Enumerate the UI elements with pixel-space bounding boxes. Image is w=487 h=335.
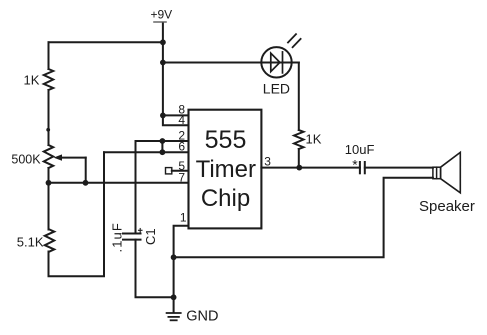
svg-text:3: 3	[264, 155, 271, 169]
wire left vertical to R1	[48, 42, 50, 69]
capacitor C1 .1uF	[123, 233, 141, 235]
svg-text:Speaker: Speaker	[419, 198, 475, 215]
junction supply top	[160, 39, 166, 45]
svg-text:4: 4	[178, 113, 185, 127]
junction pin 6	[160, 149, 166, 155]
wire LED feed	[163, 62, 299, 64]
pin 5 terminal	[166, 168, 172, 174]
wire supply vertical	[162, 24, 164, 116]
svg-text:*: *	[352, 157, 358, 173]
wire pin4 stub	[163, 115, 189, 125]
power bar	[154, 21, 166, 23]
wire C1 bottom to ground node	[136, 240, 174, 298]
wire pin2-pin6 tie	[161, 141, 163, 152]
potentiometer VR1 500K	[44, 145, 53, 168]
svg-text:LED: LED	[263, 81, 290, 97]
svg-text:.1uF: .1uF	[110, 222, 125, 252]
wire R1 to pot	[48, 90, 50, 145]
svg-text:+9V: +9V	[151, 8, 173, 22]
svg-text:1K: 1K	[306, 132, 322, 147]
svg-text:Timer: Timer	[196, 156, 256, 183]
wire pot junction to pin7	[49, 182, 189, 184]
svg-text:1: 1	[180, 211, 187, 225]
wire pin3 output	[261, 167, 360, 169]
svg-text:10uF: 10uF	[345, 142, 375, 157]
junction small left wire	[46, 128, 50, 132]
svg-text:500K: 500K	[11, 153, 41, 167]
junction output node	[296, 165, 302, 171]
wire LED to R2	[298, 63, 300, 131]
svg-text:Chip: Chip	[201, 185, 250, 212]
svg-text:555: 555	[205, 126, 247, 154]
junction pin 8	[160, 113, 166, 119]
wire R2 to output node	[298, 149, 300, 168]
junction speaker return	[171, 254, 177, 260]
LED D1	[261, 47, 291, 77]
junction pot bottom	[46, 180, 52, 186]
wire C2 to speaker	[365, 167, 433, 169]
wire pin8 stub	[163, 114, 189, 116]
resistor R1 1K	[44, 69, 53, 90]
wire pot to R3	[48, 168, 50, 230]
svg-text:6: 6	[178, 140, 185, 154]
svg-text:C1: C1	[143, 228, 158, 245]
wire top horizontal to left branch	[49, 41, 163, 43]
wire R3 bottom loop	[49, 152, 105, 276]
wire pin1 to ground	[174, 226, 189, 312]
svg-text:GND: GND	[186, 309, 218, 325]
wire pin6 horizontal	[104, 151, 189, 153]
IC U1 555 timer chip body	[189, 110, 262, 229]
resistor R3 5.1K	[45, 230, 54, 252]
svg-text:7: 7	[178, 170, 185, 184]
wire speaker return	[174, 178, 433, 257]
wire pin2 to C1	[136, 141, 189, 233]
junction pin 2	[160, 138, 166, 144]
junction pot wiper	[83, 180, 89, 186]
resistor R2 1K	[294, 130, 303, 149]
svg-text:1K: 1K	[24, 73, 40, 88]
junction C1 ground	[171, 294, 177, 300]
speaker SP1	[433, 167, 441, 179]
junction LED feed	[160, 60, 166, 66]
capacitor C2 10uF	[359, 162, 361, 173]
svg-text:5.1K: 5.1K	[17, 235, 44, 250]
ground	[167, 312, 181, 314]
